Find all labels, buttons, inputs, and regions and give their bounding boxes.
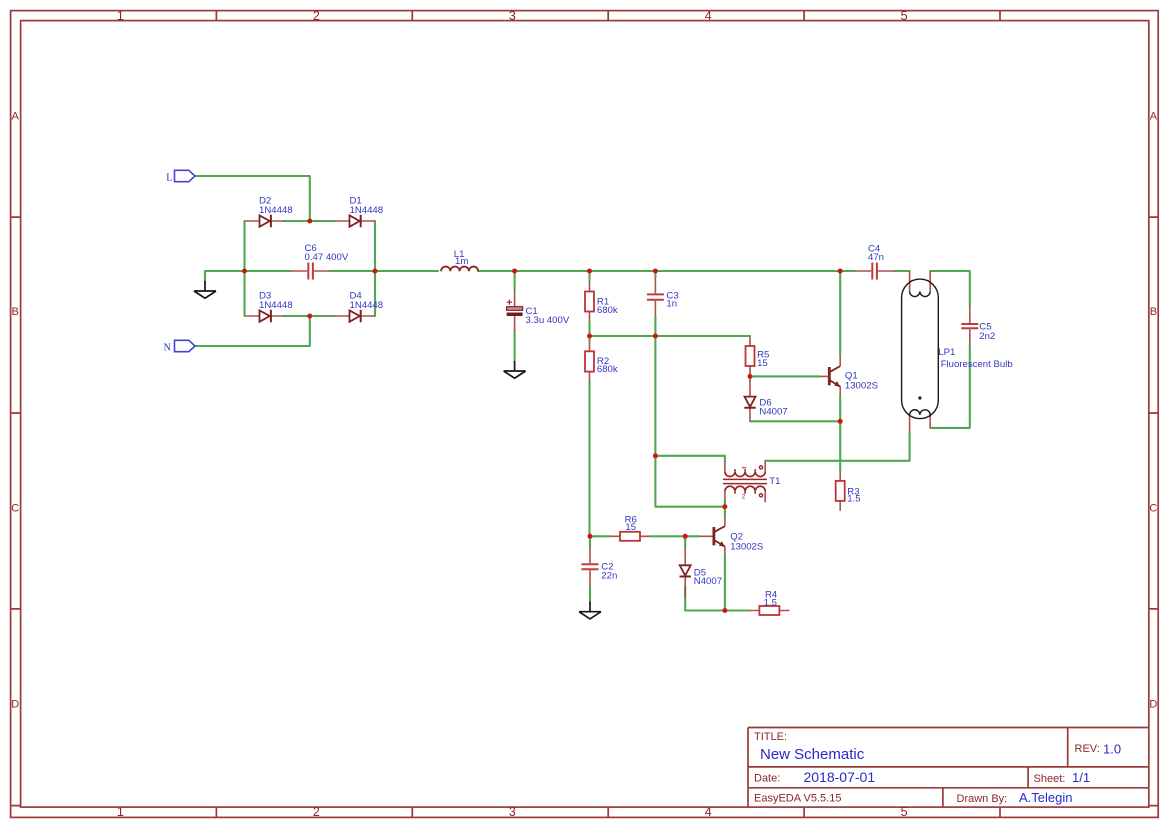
svg-text:New Schematic: New Schematic — [760, 746, 865, 763]
svg-text:A: A — [12, 110, 20, 122]
svg-text:Date:: Date: — [754, 773, 780, 785]
svg-text:2n2: 2n2 — [979, 331, 995, 342]
svg-text:22n: 22n — [601, 570, 617, 581]
svg-text:N4007: N4007 — [759, 407, 787, 418]
svg-text:0.47 400V: 0.47 400V — [305, 252, 349, 263]
svg-text:TITLE:: TITLE: — [754, 731, 787, 743]
svg-text:1n: 1n — [666, 299, 677, 310]
svg-text:2: 2 — [313, 805, 320, 819]
svg-text:EasyEDA V5.5.15: EasyEDA V5.5.15 — [754, 793, 841, 805]
svg-text:1N4448: 1N4448 — [259, 205, 293, 216]
svg-text:13002S: 13002S — [730, 541, 763, 552]
svg-text:1: 1 — [117, 9, 124, 23]
svg-text:Drawn By:: Drawn By: — [957, 793, 1008, 805]
svg-text:15: 15 — [625, 522, 636, 533]
svg-text:680k: 680k — [597, 305, 618, 316]
svg-text:1.5: 1.5 — [764, 598, 777, 609]
svg-text:5: 5 — [901, 805, 908, 819]
svg-text:Fluorescent Bulb: Fluorescent Bulb — [941, 359, 1013, 370]
svg-text:1N4448: 1N4448 — [259, 300, 293, 311]
svg-text:3.3u 400V: 3.3u 400V — [526, 315, 570, 326]
svg-text:A.Telegin: A.Telegin — [1019, 790, 1072, 805]
svg-text:3: 3 — [509, 805, 516, 819]
svg-text:3: 3 — [509, 9, 516, 23]
svg-text:2: 2 — [313, 9, 320, 23]
svg-text:1/1: 1/1 — [1072, 770, 1090, 785]
svg-text:N: N — [164, 343, 171, 354]
svg-text:4: 4 — [705, 805, 712, 819]
svg-text:D: D — [1149, 699, 1157, 711]
svg-text:4: 4 — [705, 9, 712, 23]
svg-text:L: L — [166, 173, 172, 184]
svg-text:2018-07-01: 2018-07-01 — [804, 769, 876, 785]
svg-text:Sheet:: Sheet: — [1034, 773, 1066, 785]
svg-text:5: 5 — [901, 9, 908, 23]
svg-text:1N4448: 1N4448 — [350, 205, 384, 216]
svg-text:15: 15 — [757, 358, 768, 369]
svg-text:2: 2 — [742, 493, 746, 500]
svg-text:N4007: N4007 — [694, 576, 722, 587]
svg-text:1.0: 1.0 — [1103, 742, 1121, 757]
svg-text:47n: 47n — [868, 252, 884, 263]
svg-text:1m: 1m — [455, 256, 468, 267]
svg-text:LP1: LP1 — [938, 347, 955, 358]
svg-text:B: B — [12, 306, 19, 318]
svg-text:B: B — [1150, 306, 1157, 318]
svg-text:T1: T1 — [769, 476, 780, 487]
svg-text:C: C — [1149, 502, 1157, 514]
svg-text:1.5: 1.5 — [847, 494, 860, 505]
svg-text:REV:: REV: — [1075, 743, 1100, 755]
svg-text:1N4448: 1N4448 — [350, 300, 384, 311]
svg-text:D: D — [11, 699, 19, 711]
svg-text:1: 1 — [117, 805, 124, 819]
svg-text:C: C — [11, 502, 19, 514]
svg-text:680k: 680k — [597, 364, 618, 375]
svg-text:13002S: 13002S — [845, 381, 878, 392]
svg-text:A: A — [1150, 110, 1158, 122]
